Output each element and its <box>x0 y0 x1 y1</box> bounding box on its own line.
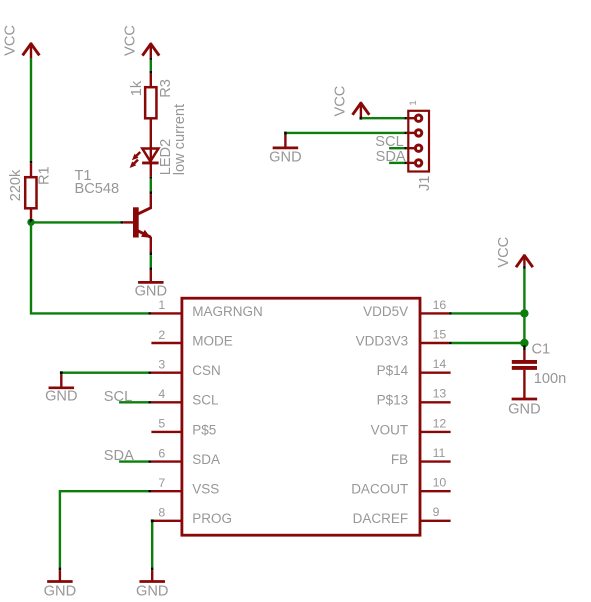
svg-text:J1: J1 <box>417 176 433 191</box>
svg-text:3: 3 <box>158 358 165 372</box>
resistor R3 <box>129 74 174 149</box>
svg-text:VCC: VCC <box>3 25 19 56</box>
wire VCC to R3 <box>150 58 152 60</box>
svg-text:low current: low current <box>172 104 188 175</box>
svg-text:GND: GND <box>45 389 77 405</box>
wire PROG to GND <box>151 521 153 568</box>
svg-text:8: 8 <box>158 506 165 520</box>
ground (below T1) <box>135 270 167 299</box>
svg-text:BC548: BC548 <box>75 181 120 197</box>
pin 16 VDD5V <box>363 298 449 319</box>
svg-text:GND: GND <box>508 401 540 417</box>
resistor R1 <box>8 163 53 222</box>
svg-text:VOUT: VOUT <box>371 422 409 437</box>
pin 7 VSS <box>151 476 219 497</box>
svg-text:2: 2 <box>158 328 165 342</box>
wire SCL to J1 pin3 <box>389 147 404 149</box>
svg-text:13: 13 <box>433 387 447 401</box>
svg-text:VDD3V3: VDD3V3 <box>356 333 409 348</box>
svg-text:R1: R1 <box>37 166 53 185</box>
connector J1 <box>407 100 434 191</box>
svg-text:SCL: SCL <box>192 393 219 408</box>
capacitor C1 100n <box>512 342 566 399</box>
pin 2 MODE <box>151 328 232 349</box>
wire VCC down to C1 <box>523 269 525 343</box>
transistor T1 (BC548) <box>75 168 152 252</box>
wire junction down to IC pin 1 <box>31 222 148 313</box>
ground (CSN pin 3) <box>61 372 148 374</box>
pin 15 VDD3V3 <box>356 327 449 348</box>
svg-text:C1: C1 <box>532 342 551 358</box>
svg-text:DACOUT: DACOUT <box>351 482 408 497</box>
svg-text:4: 4 <box>158 387 165 401</box>
supply VCC (top-left) <box>3 25 40 58</box>
node junction at R1 bottom <box>27 219 34 226</box>
svg-text:CSN: CSN <box>192 363 221 378</box>
svg-text:220k: 220k <box>8 169 24 201</box>
svg-text:SDA: SDA <box>192 452 220 467</box>
pin 6 SDA <box>151 446 220 467</box>
svg-text:P$14: P$14 <box>377 363 409 378</box>
svg-text:100n: 100n <box>534 371 566 387</box>
svg-text:VCC: VCC <box>332 86 348 117</box>
pin 13 P$13 <box>377 387 451 408</box>
svg-text:MODE: MODE <box>192 333 233 348</box>
svg-text:7: 7 <box>158 476 165 490</box>
wire VCC to J1 pin1 <box>362 117 405 119</box>
svg-text:15: 15 <box>433 327 447 341</box>
pin 9 DACREF <box>353 505 451 526</box>
svg-text:DACREF: DACREF <box>353 511 409 526</box>
wire SCL to pin 4 <box>119 401 148 403</box>
pin 12 VOUT <box>371 416 451 437</box>
wire junction to transistor base <box>31 221 120 223</box>
wire SDA to J1 pin4 <box>389 162 404 164</box>
pin 10 DACOUT <box>351 476 450 497</box>
svg-text:GND: GND <box>44 583 76 599</box>
LED D2 (LED2 low current) <box>130 104 188 177</box>
ground (PROG) <box>136 570 168 599</box>
svg-text:PROG: PROG <box>192 511 232 526</box>
pin 8 PROG <box>151 506 232 527</box>
svg-text:VSS: VSS <box>192 482 219 497</box>
svg-text:GND: GND <box>269 150 301 166</box>
node junction VDD3V3 <box>520 339 528 347</box>
pin 1 MAGRNGN <box>151 298 262 319</box>
svg-text:MAGRNGN: MAGRNGN <box>192 304 262 319</box>
pin 5 P$5 <box>151 417 216 438</box>
pin 11 FB <box>391 446 451 467</box>
svg-text:11: 11 <box>433 446 446 460</box>
wire VCC to R1 <box>30 58 32 161</box>
svg-text:FB: FB <box>391 452 408 467</box>
svg-text:6: 6 <box>158 446 165 460</box>
supply VCC (above R3) <box>122 25 159 58</box>
ground (VSS) <box>44 570 76 599</box>
wire pin16 to rail <box>449 312 452 314</box>
svg-text:P$5: P$5 <box>192 422 216 437</box>
svg-text:12: 12 <box>433 416 447 430</box>
svg-text:VCC: VCC <box>496 237 512 268</box>
IC U1 <box>182 298 420 535</box>
pin 3 CSN <box>151 358 220 379</box>
wire GND to J1 pin2 <box>287 132 405 134</box>
svg-text:9: 9 <box>433 505 440 519</box>
wire VSS to GND <box>60 491 148 567</box>
pin 4 SCL <box>151 387 219 408</box>
supply VCC (right) <box>496 237 533 268</box>
svg-text:1: 1 <box>158 298 165 312</box>
svg-text:VDD5V: VDD5V <box>363 304 408 319</box>
node junction VDD5V <box>520 309 528 317</box>
ground (C1) <box>508 399 540 417</box>
svg-text:GND: GND <box>136 583 168 599</box>
wire emitter to GND <box>150 252 152 255</box>
svg-text:5: 5 <box>158 417 165 431</box>
svg-text:10: 10 <box>433 476 447 490</box>
supply VCC (above J1) <box>332 86 369 117</box>
svg-text:P$13: P$13 <box>377 393 409 408</box>
wire pin15 to rail <box>449 342 452 344</box>
wire SDA to pin 6 <box>119 460 148 462</box>
svg-text:16: 16 <box>433 298 447 312</box>
svg-text:1: 1 <box>408 100 419 105</box>
svg-text:VCC: VCC <box>122 25 138 56</box>
svg-text:1k: 1k <box>129 80 145 96</box>
svg-text:14: 14 <box>433 357 447 371</box>
wire LED to collector <box>150 177 152 179</box>
pin 14 P$14 <box>377 357 451 378</box>
ground (J1) <box>269 134 301 166</box>
svg-text:R3: R3 <box>158 79 174 98</box>
